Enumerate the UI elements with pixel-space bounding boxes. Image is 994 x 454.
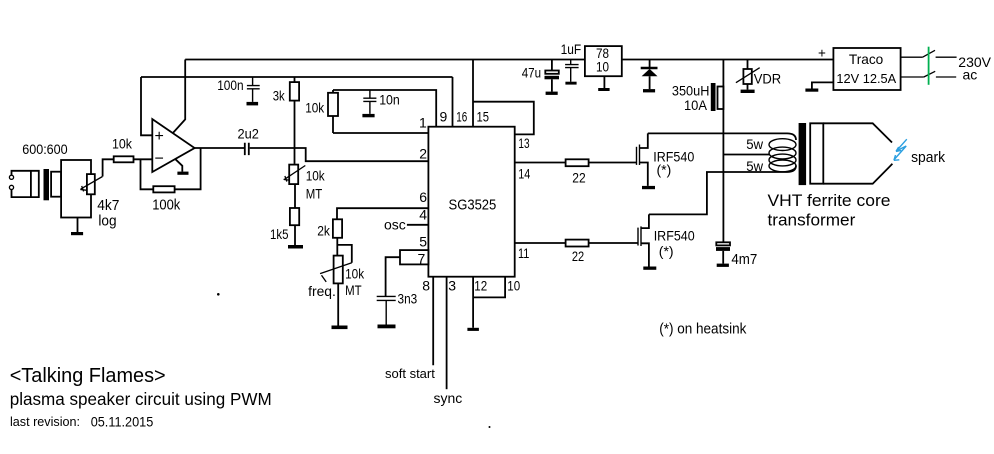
feedback net wire [141,148,201,189]
IC U2 SG3525 [428,127,514,277]
wire 2u2 to junction [250,147,295,149]
svg-text:freq.: freq. [308,283,336,299]
capacitor C3 10n [363,90,376,114]
capacitor C2 100n [247,77,260,102]
wire junction to chip pin 2 [295,148,429,161]
main 12V vertical wire [722,60,724,243]
rail vref to pin16 [141,76,453,78]
svg-text:10: 10 [596,59,609,75]
resistor R2 10k [114,156,134,162]
svg-text:11: 11 [518,245,530,261]
stray dot left [217,293,220,296]
ground (Traco) [812,82,834,88]
svg-text:13: 13 [518,135,529,151]
resistor R4 3k [294,77,296,82]
svg-text:ac: ac [963,67,978,83]
svg-text:(*): (*) [659,243,674,259]
svg-text:+: + [155,128,164,145]
svg-text:−: − [155,151,164,168]
pin 10 wire [473,277,505,298]
svg-text:VHT ferrite core: VHT ferrite core [768,191,891,210]
svg-text:sync: sync [434,390,463,406]
pin 3 wire sync [446,277,448,390]
ground (T1 secondary) [77,218,79,233]
svg-text:10: 10 [507,277,520,293]
svg-text:4m7: 4m7 [731,252,757,268]
svg-text:1k5: 1k5 [270,226,289,242]
svg-text:12: 12 [474,277,487,293]
resistor R3 100k [153,186,174,192]
box net bottom edge to pin 1 [333,132,428,134]
input jack terminal top [9,175,13,179]
svg-text:22: 22 [572,248,584,264]
op-amp ground pin [175,159,182,172]
svg-text:14: 14 [518,165,530,181]
regulator U3 7810 [585,46,622,76]
svg-text:600:600: 600:600 [22,141,68,157]
svg-text:10k: 10k [306,168,326,184]
svg-text:3k: 3k [273,88,286,104]
pin 7 box [400,250,428,264]
mains wire L [901,50,957,57]
svg-text:VDR: VDR [754,71,782,87]
ground (Q2 source) [643,267,656,270]
potentiometer R5 10k MT [289,165,298,185]
svg-text:IRF540: IRF540 [654,228,695,244]
svg-text:3n3: 3n3 [398,291,418,307]
T1 core [44,169,50,200]
wiper loop freq pot [337,245,352,263]
op-amp non-inverting input wire [141,77,152,135]
op-amp V+ supply pin [173,60,185,133]
svg-text:last revision:: last revision: [10,414,80,429]
svg-text:1uF: 1uF [561,42,582,57]
svg-text:05.11.2015: 05.11.2015 [91,414,154,429]
wire 2k to freq pot [336,238,338,256]
ground (100n) [247,102,259,106]
svg-text:2: 2 [419,146,427,162]
wire Q2 drain L-path to transformer bottom [649,166,796,215]
wire to op-amp inverting input [134,158,153,160]
pin 12 wire + ground [472,277,474,328]
inductor L1 350uH core [711,83,716,111]
svg-text:(*) on heatsink: (*) on heatsink [659,322,747,338]
svg-text:(*): (*) [657,162,672,178]
svg-text:9: 9 [440,109,448,125]
svg-text:osc: osc [384,216,406,232]
svg-text:5w: 5w [746,136,764,152]
wire 3k down through junction to pot [294,101,296,164]
capacitor C5 47u [551,60,553,71]
op-amp output wire [195,147,245,149]
transformer T2 primary coils [769,139,796,151]
svg-text:350uH: 350uH [672,84,710,99]
varistor VDR [747,60,749,70]
T2 secondary winding [810,123,823,183]
pin 14 wire [515,162,566,164]
T2 secondary loop + spark electrodes [823,123,892,183]
T1 secondary winding [51,172,61,197]
capacitor C6 1uF [565,60,579,82]
inductor L1 winding [718,87,724,110]
svg-text:4: 4 [419,207,427,223]
svg-text:soft start: soft start [385,366,435,381]
pin 16 wire [452,77,454,127]
rail 10V supply [185,59,833,61]
svg-text:6: 6 [419,189,427,205]
capacitor C1 2u2 [245,143,249,155]
T1 secondary loop wire [61,160,91,218]
svg-text:5w: 5w [746,158,764,174]
potentiometer R9 10k MT freq [334,256,343,284]
wire to Q1 gate [589,162,637,164]
capacitor C7 4m7 [716,242,730,245]
resistor R7 10k vertical [332,90,334,133]
svg-text:10A: 10A [684,98,707,113]
T1 primary winding [30,171,32,197]
ground (Q1 source) [642,186,655,189]
power supply Traco box [833,48,900,90]
transistor Q1 IRF540 [636,147,638,165]
wire wiper to 10k [103,159,114,176]
stray dot bottom [489,426,491,428]
resistor R10 22 [566,159,589,166]
T2 core [799,123,807,185]
spark symbol [894,139,907,160]
svg-text:SG3525: SG3525 [449,196,497,213]
wire pot to 1k5 [294,184,296,208]
svg-text:47u: 47u [522,65,541,80]
wire Q1 drain to transformer top [648,133,796,140]
pin 11 wire [515,242,566,244]
mains wire N [901,71,957,77]
svg-text:100n: 100n [217,77,243,93]
svg-text:Traco: Traco [849,51,884,67]
svg-text:log: log [98,214,116,230]
ground (7810) [603,76,605,88]
svg-text:8: 8 [422,278,430,294]
svg-text:<Talking Flames>: <Talking Flames> [10,365,166,387]
wire center tap [723,154,770,156]
capacitor C4 3n3 [377,296,396,324]
svg-text:100k: 100k [152,197,181,213]
svg-text:2u2: 2u2 [238,126,260,142]
diode D1 [649,60,651,68]
op-amp U1 [152,119,194,172]
svg-text:12V 12.5A: 12V 12.5A [836,71,896,86]
svg-text:16: 16 [456,109,467,125]
svg-text:10n: 10n [379,92,400,108]
mains connector green line [928,47,930,85]
svg-text:spark: spark [911,150,946,166]
svg-text:1: 1 [419,115,427,131]
svg-text:MT: MT [306,186,323,202]
svg-text:10k: 10k [112,135,133,151]
svg-text:+: + [818,46,826,61]
transistor Q2 IRF540 [637,228,639,246]
box net 10k/10n to pin 9 top edge [333,90,436,127]
svg-text:10k: 10k [345,266,365,282]
svg-text:5: 5 [419,234,427,250]
ground (3n3) [378,325,396,329]
potentiometer R1 4k7 log [87,174,95,194]
ground (1k5) [294,225,296,245]
svg-text:2k: 2k [317,223,331,239]
svg-text:MT: MT [345,282,362,298]
pin 15 wire [472,60,474,127]
wire pin7 to 3n3 [386,257,400,296]
svg-text:transformer: transformer [768,211,856,230]
svg-text:4k7: 4k7 [97,198,119,214]
ground (freq pot) [337,283,339,325]
ground (10n) [362,114,374,117]
resistor R6 1k5 [290,208,299,225]
svg-text:7: 7 [418,250,426,266]
pin 8 wire soft start [432,277,434,366]
wire to Q2 gate [589,242,638,244]
svg-text:22: 22 [572,169,586,185]
pin 13 net [473,102,534,135]
transformer T1 600:600 primary loop wire [12,171,39,197]
input jack terminal bottom [9,185,13,189]
svg-text:plasma speaker circuit using P: plasma speaker circuit using PWM [10,389,272,409]
svg-text:3: 3 [448,278,456,294]
svg-text:15: 15 [477,109,490,125]
svg-text:10k: 10k [305,100,325,116]
resistor R8 2k [333,219,342,238]
pin 6 wire [337,208,428,219]
resistor R11 22 [566,240,589,247]
pin 4 osc stub [407,224,429,226]
